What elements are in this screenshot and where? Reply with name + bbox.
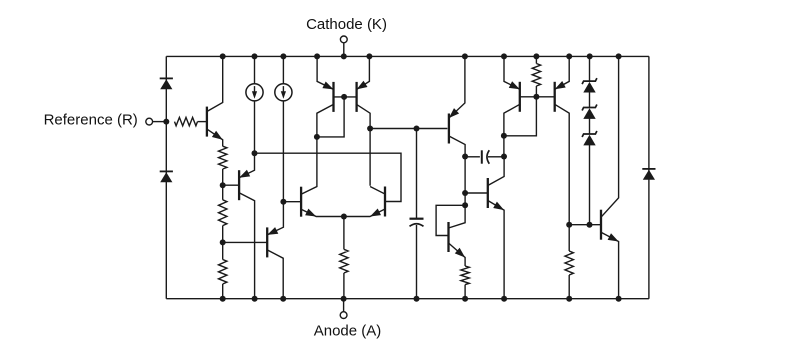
current source I2 <box>282 56 284 83</box>
wire Q7 base feedback <box>255 153 402 201</box>
capacitor C1 (compensation) <box>416 129 418 219</box>
transistor Q1 (npn input) <box>206 107 208 137</box>
node divider tap 1 <box>220 182 226 188</box>
node Q11 collector junction <box>501 133 507 139</box>
node zener base junction <box>587 222 593 228</box>
resistor R8 (Q12 collector load) <box>566 222 572 228</box>
resistor R4 <box>222 242 224 259</box>
node R7 rail junction <box>533 53 539 59</box>
node Q8 emitter rail junction <box>462 53 468 59</box>
svg-text:Cathode (K): Cathode (K) <box>306 16 387 33</box>
diode D3 (right edge) <box>643 170 655 180</box>
node Q2 collector anode junction <box>252 296 258 302</box>
wire left edge <box>165 56 167 298</box>
node Q8 collector / C2 left <box>462 154 468 160</box>
transistor Q9 (npn) <box>487 178 489 208</box>
capacitor C2 <box>465 156 480 158</box>
node zener rail junction <box>587 53 593 59</box>
resistor R7 (mirror2 bias) <box>535 56 537 63</box>
transistor Q3 (pnp) <box>266 227 268 257</box>
node divider tap 2 <box>220 239 226 245</box>
cathode terminal K <box>343 43 345 57</box>
zener Z2 <box>583 108 595 119</box>
resistor R1 (reference input) <box>175 117 198 125</box>
node Q4 collector / Q6 collector <box>314 134 320 140</box>
resistor R3 <box>222 185 224 200</box>
wire mirror2 base tie <box>520 96 555 98</box>
transistor Q4 (pnp mirror left) <box>332 82 334 112</box>
node C1 anode junction <box>414 296 420 302</box>
resistor R2 <box>219 146 227 169</box>
wire mirror2 base to collector <box>504 97 537 136</box>
node Q9 emitter anode junction <box>501 296 507 302</box>
transistor Q8 (pnp) <box>448 114 450 144</box>
node Q11 emitter rail junction <box>501 53 507 59</box>
resistor R5 (diff tail) <box>343 217 345 250</box>
zener Z1 <box>583 82 595 93</box>
node compensation tap <box>414 126 420 132</box>
node I1 output <box>252 150 258 156</box>
transistor Q6 (npn diff left) <box>300 187 302 217</box>
node I1 rail junction <box>252 53 258 59</box>
current source I1 <box>254 56 256 83</box>
node anode junction <box>341 296 347 302</box>
wire right edge <box>648 56 650 298</box>
transistor Q11 (pnp mirror2 left) <box>519 82 521 112</box>
wire Q5 collector to Q8 base <box>370 128 447 130</box>
transistor Q13 (npn output) <box>600 210 602 240</box>
node R8 anode junction <box>566 296 572 302</box>
transistor Q10 (npn diode-connected) <box>447 222 449 252</box>
diode D2 (left edge lower) <box>160 172 172 182</box>
node mirror base <box>341 94 347 100</box>
node cathode junction <box>341 53 347 59</box>
node I2 rail junction <box>280 53 286 59</box>
diode D1 (left edge upper) <box>160 79 172 89</box>
zener chain from rail <box>589 56 591 81</box>
node I2 output <box>280 199 286 205</box>
wire R3 to node <box>222 226 224 243</box>
transistor Q7 (npn diff right) <box>384 187 386 217</box>
node Q10 collector junction <box>462 202 468 208</box>
node Q4 emitter rail junction <box>314 53 320 59</box>
node Q9 base junction <box>462 190 468 196</box>
wire R2 to node <box>222 169 224 185</box>
resistor R6 <box>461 266 469 285</box>
transistor Q12 (pnp mirror2 right) <box>554 82 556 112</box>
node reference junction <box>163 119 169 125</box>
wire Q8 collector node chain <box>464 157 466 194</box>
wire mirror base tie <box>334 96 357 98</box>
node diff emitter junction <box>341 214 347 220</box>
anode terminal A <box>343 299 345 312</box>
node R4 anode junction <box>220 296 226 302</box>
node Q13 emitter anode junction <box>616 296 622 302</box>
node Q12 emitter rail junction <box>566 53 572 59</box>
node Q13 collector rail junction <box>616 53 622 59</box>
zener Z3 <box>583 135 595 146</box>
node Q5 emitter rail junction <box>366 53 372 59</box>
svg-text:Anode (A): Anode (A) <box>314 322 382 339</box>
wire mirror base to collector <box>317 97 344 137</box>
node Q1 collector rail junction <box>220 53 226 59</box>
svg-text:Reference (R): Reference (R) <box>44 112 138 129</box>
node R6 anode junction <box>462 296 468 302</box>
wire top rail (cathode bus) <box>166 55 649 57</box>
transistor Q5 (pnp mirror right) <box>355 82 357 112</box>
node mirror2 base <box>533 94 539 100</box>
wire bottom rail (anode bus) <box>166 298 649 300</box>
node C2 right / Q9 collector <box>501 154 507 160</box>
node Q3 collector anode junction <box>280 296 286 302</box>
transistor Q2 (pnp) <box>238 170 240 200</box>
node Q5 collector tap <box>367 126 373 132</box>
